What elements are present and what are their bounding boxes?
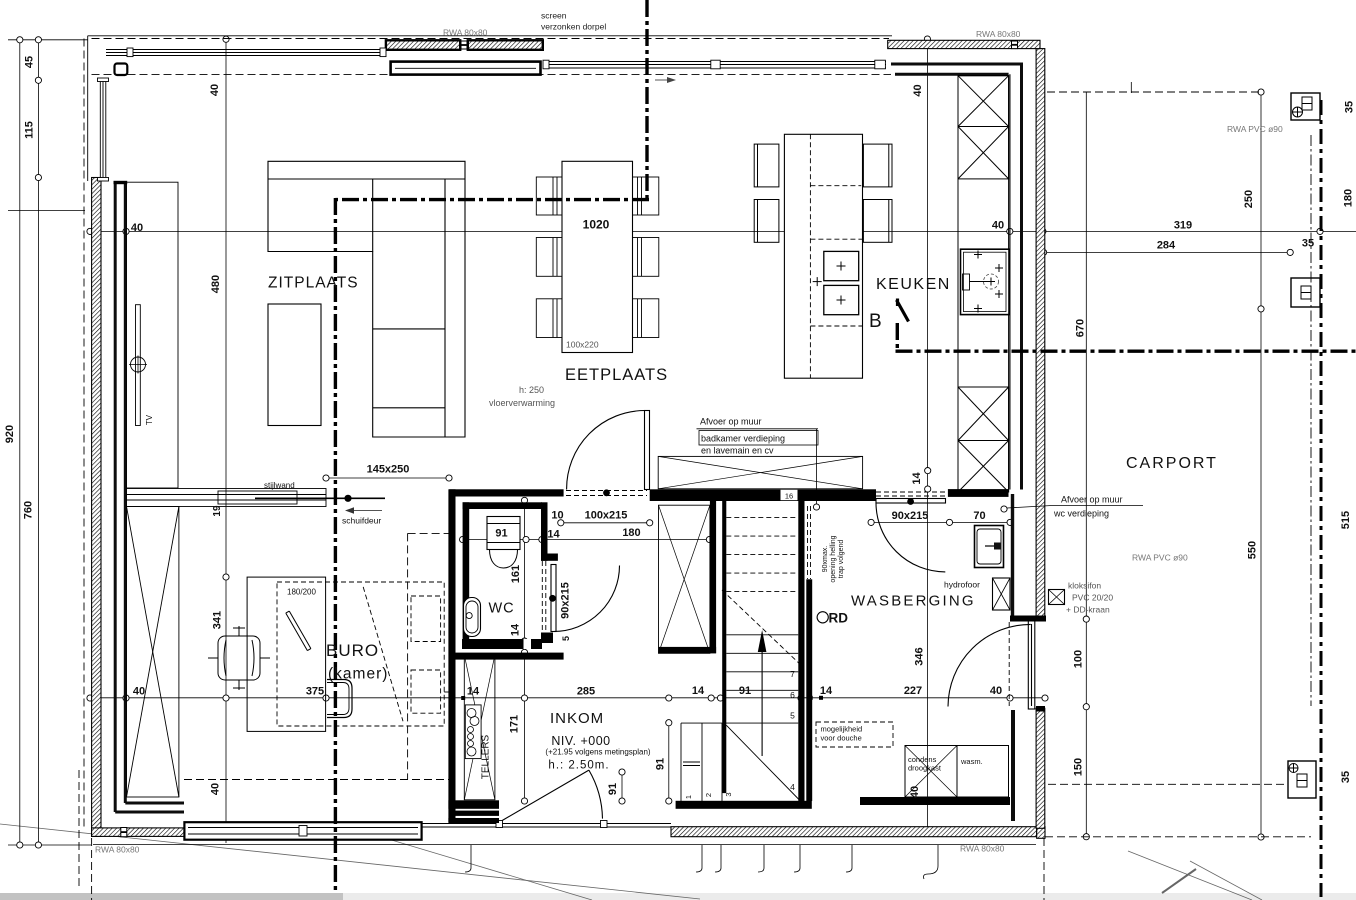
svg-text:515: 515 [1340,511,1352,529]
svg-text:+ DD-kraan: + DD-kraan [1066,605,1110,615]
svg-text:14: 14 [692,685,705,697]
svg-text:145x250: 145x250 [367,464,410,476]
svg-text:90x215: 90x215 [892,510,929,522]
svg-text:40: 40 [990,685,1002,697]
svg-text:RWA PVC ø90: RWA PVC ø90 [1227,124,1283,134]
svg-text:90x215: 90x215 [560,582,572,619]
svg-text:WC: WC [489,601,515,617]
svg-text:5: 5 [561,636,571,641]
svg-text:90xmax.: 90xmax. [822,546,829,573]
svg-text:100: 100 [1073,650,1085,668]
svg-text:284: 284 [1157,240,1176,252]
svg-text:1: 1 [684,795,693,799]
svg-text:180: 180 [622,527,640,539]
svg-text:RD: RD [829,611,849,626]
svg-text:14: 14 [510,623,522,636]
svg-text:14: 14 [467,686,480,698]
svg-text:Afvoer op muur: Afvoer op muur [1061,495,1123,505]
svg-text:341: 341 [212,611,224,629]
svg-text:3: 3 [724,792,733,796]
svg-text:vloerverwarming: vloerverwarming [489,398,555,408]
svg-text:480: 480 [210,275,222,293]
svg-text:35: 35 [1340,771,1352,783]
svg-text:40: 40 [133,686,145,698]
svg-text:91: 91 [607,783,619,795]
svg-text:250: 250 [1243,190,1255,208]
svg-text:KEUKEN: KEUKEN [876,276,951,293]
svg-text:180: 180 [1343,189,1355,207]
svg-text:285: 285 [577,686,595,698]
svg-text:droogkast: droogkast [908,764,942,773]
svg-text:35: 35 [1302,238,1314,250]
svg-text:(+21.95 volgens metingsplan): (+21.95 volgens metingsplan) [545,748,651,757]
svg-text:TV: TV [145,414,154,425]
svg-text:40: 40 [912,84,924,96]
svg-text:91: 91 [739,685,751,697]
svg-text:19: 19 [212,505,223,517]
svg-text:100x220: 100x220 [566,340,599,350]
svg-text:mogelijkheid: mogelijkheid [821,725,863,734]
svg-text:91: 91 [655,758,667,770]
svg-text:180/200: 180/200 [287,588,316,597]
svg-text:40: 40 [210,783,222,795]
svg-text:kloksifon: kloksifon [1068,581,1101,591]
svg-text:B: B [869,311,883,332]
svg-text:h: 250: h: 250 [519,385,544,395]
svg-text:40: 40 [909,786,921,798]
svg-text:70: 70 [973,510,985,522]
svg-text:171: 171 [509,715,521,733]
svg-text:stijlwand: stijlwand [264,481,295,490]
svg-text:badkamer verdieping: badkamer verdieping [701,434,785,444]
svg-text:Afvoer op muur: Afvoer op muur [700,417,762,427]
svg-text:RWA 80x80: RWA 80x80 [443,28,488,38]
svg-text:RWA 80x80: RWA 80x80 [976,29,1021,39]
svg-text:NIV. +000: NIV. +000 [551,734,610,748]
svg-text:40: 40 [131,222,143,234]
svg-text:227: 227 [904,685,922,697]
svg-text:161: 161 [510,565,522,583]
svg-text:91: 91 [495,528,507,540]
svg-text:4: 4 [790,782,795,792]
svg-text:h.: 2.50m.: h.: 2.50m. [548,760,609,772]
svg-text:346: 346 [914,647,926,665]
svg-text:RWA 80x80: RWA 80x80 [960,844,1005,854]
svg-text:verzonken dorpel: verzonken dorpel [541,22,606,32]
svg-text:TELLERS: TELLERS [481,734,492,779]
svg-text:wasm.: wasm. [960,757,983,766]
svg-text:trap volgend: trap volgend [838,540,845,579]
svg-text:115: 115 [24,121,36,139]
svg-text:1020: 1020 [583,218,610,232]
svg-text:14: 14 [911,472,923,485]
svg-text:40: 40 [992,220,1004,232]
svg-text:35: 35 [1344,101,1356,113]
svg-text:voor douche: voor douche [821,734,862,743]
svg-text:40: 40 [209,84,221,96]
svg-text:opening helling: opening helling [830,535,837,582]
svg-text:14: 14 [547,529,560,541]
svg-text:319: 319 [1174,220,1192,232]
svg-text:BURO: BURO [326,641,379,660]
svg-text:RWA PVC ø90: RWA PVC ø90 [1132,553,1188,563]
svg-text:RWA 80x80: RWA 80x80 [95,845,140,855]
svg-text:10: 10 [551,510,563,522]
svg-text:375: 375 [306,686,324,698]
svg-text:6: 6 [790,690,795,700]
svg-text:screen: screen [541,11,567,21]
svg-text:schuifdeur: schuifdeur [342,516,381,526]
svg-text:ZITPLAATS: ZITPLAATS [268,275,359,292]
svg-text:760: 760 [23,501,35,519]
svg-text:wc verdieping: wc verdieping [1053,509,1109,519]
svg-text:en lavemain en cv: en lavemain en cv [701,446,774,456]
svg-text:920: 920 [4,425,16,443]
svg-text:INKOM: INKOM [550,710,604,727]
svg-text:5: 5 [790,711,795,721]
svg-text:hydrofoor: hydrofoor [944,580,980,590]
svg-text:670: 670 [1075,319,1087,337]
svg-text:14: 14 [820,685,833,697]
svg-text:EETPLAATS: EETPLAATS [565,366,668,384]
svg-text:16: 16 [785,492,793,501]
svg-text:(kamer): (kamer) [328,666,388,683]
svg-text:CARPORT: CARPORT [1126,455,1218,472]
svg-text:150: 150 [1073,758,1085,776]
svg-text:45: 45 [24,56,36,68]
svg-text:WASBERGING: WASBERGING [851,593,976,610]
svg-text:PVC 20/20: PVC 20/20 [1072,593,1113,603]
svg-text:2: 2 [704,793,713,797]
svg-text:100x215: 100x215 [585,510,628,522]
svg-text:550: 550 [1247,541,1259,559]
svg-text:7: 7 [790,669,795,679]
